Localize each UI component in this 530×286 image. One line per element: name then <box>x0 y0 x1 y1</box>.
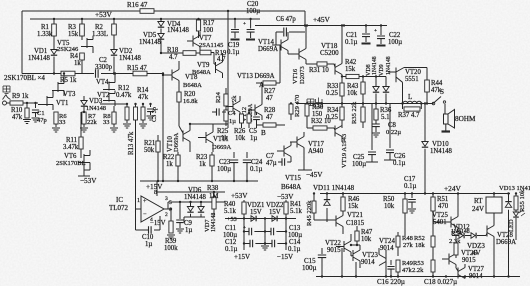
diode VD10 <box>422 142 428 147</box>
diode VD6b <box>200 202 202 206</box>
wire left vertical <box>21 11 23 74</box>
wire row y124 to VAS <box>213 123 228 125</box>
wire op-amp output row <box>164 208 168 210</box>
capacitor C11 100u <box>244 231 249 233</box>
transistor VT24 9014 <box>379 255 386 266</box>
ground under speaker <box>445 124 447 131</box>
wire VT23 emitter to rail <box>355 262 357 277</box>
wire base row VT21 <box>314 219 336 221</box>
wire diode bottoms <box>184 216 205 218</box>
wire R18 row <box>161 52 183 54</box>
transistor VT18 C5200 <box>335 64 342 75</box>
transistor VT4 2SK170 <box>103 82 115 91</box>
resistor R38 1M <box>213 192 215 197</box>
capacitor C9 1u <box>179 202 181 219</box>
resistor R20 <box>177 92 181 102</box>
capacitor C25 100u <box>371 104 373 151</box>
label +15V out <box>243 244 245 251</box>
transistor VT22 9015 <box>344 241 351 252</box>
diode VD13 <box>508 194 510 203</box>
resistor R41 5.1k <box>285 200 287 202</box>
resistor R40 5.1k <box>243 200 245 202</box>
resistor R35 22k <box>361 107 365 122</box>
capacitor C2 3300p <box>96 69 99 77</box>
capacitor C12 0.1u <box>244 243 250 245</box>
resistor R44 47k <box>425 80 430 92</box>
transistor VT3 2SK170 <box>52 82 64 92</box>
speaker 8OHM <box>444 104 446 114</box>
capacitor C16 220u <box>390 260 392 265</box>
diode VD12b <box>465 235 471 237</box>
transistor VT17 A940 <box>297 137 304 148</box>
diode VD8 <box>375 77 377 87</box>
switch S <box>433 97 441 104</box>
wire source row <box>100 103 127 105</box>
resistor R46 15k <box>341 197 345 211</box>
transistor VT23 9014 <box>353 250 360 261</box>
resistor R4 <box>80 53 85 60</box>
wire +53V rail <box>30 18 260 20</box>
diode VD6a <box>190 202 192 206</box>
transistor VT7 2SA1145 <box>193 36 200 47</box>
inductor L <box>403 101 421 103</box>
wire mid vertical x163 <box>162 74 164 182</box>
transistor VT5 2SK246 <box>81 38 93 48</box>
capacitor C7 47u <box>282 158 285 166</box>
transistor VT16 D2073 <box>299 49 306 60</box>
resistor R37 4.7 <box>402 104 404 110</box>
diode VD11 <box>326 194 328 201</box>
wire zener row <box>225 218 296 220</box>
resistor R34 0.25 <box>340 107 344 120</box>
wire input bus <box>22 73 94 75</box>
input terminal <box>3 101 7 105</box>
resistor R31 <box>306 63 317 65</box>
wire bottom rail <box>316 276 520 278</box>
transistor VT21 C1815 <box>336 216 343 227</box>
resistor R24 upper <box>224 94 228 106</box>
zener VDZ1 <box>251 216 255 222</box>
supply -45V tick <box>298 169 312 171</box>
resistor R45 220k <box>313 194 315 202</box>
resistor R54 2.2k <box>454 243 458 255</box>
resistor R49 47k <box>396 260 400 272</box>
transistor VT27 9014 <box>458 268 465 279</box>
capacitor C15 100u <box>321 248 323 254</box>
capacitor C22 electrolytic <box>380 26 382 36</box>
resistor R8 <box>112 112 116 124</box>
resistor R32 10 <box>313 126 327 130</box>
transistor VT8 B648A <box>172 70 179 81</box>
LED <box>513 212 519 216</box>
resistor R28 <box>263 123 276 127</box>
capacitor C19 <box>234 19 236 29</box>
diode VD12a <box>452 235 459 237</box>
resistor R50 10k <box>404 194 406 200</box>
wire feedback vertical <box>135 120 137 230</box>
transistor VT12 D669A <box>233 101 240 112</box>
transistor VT28 D669A <box>487 226 494 237</box>
transistor VT6 2SK170BL <box>78 154 90 164</box>
diode VD5 <box>158 34 164 39</box>
capacitor C26 0.1u <box>389 104 391 149</box>
resistor R14 body <box>134 107 138 120</box>
capacitor C8 0.22u <box>372 124 380 127</box>
diode VD3 <box>81 101 87 106</box>
transistor VT25 5401 <box>451 217 458 228</box>
capacitor C20 electrolytic <box>250 19 252 29</box>
wire VT22 emitter to rail <box>341 248 343 277</box>
capacitor C24 0.1u <box>246 152 248 158</box>
wire LED down <box>515 230 517 240</box>
transistor VT1 2SK170 <box>41 96 53 106</box>
supply -53V tick <box>78 175 90 177</box>
resistor R25 body <box>240 114 244 123</box>
transistor VT26 9015 <box>449 254 456 265</box>
diode VD2 <box>111 50 117 55</box>
wire op-amp pin8 <box>156 181 158 196</box>
wire top feedback line <box>22 10 140 12</box>
resistor R18 <box>183 51 196 56</box>
wire VT cluster node <box>351 244 360 246</box>
ground supply mid <box>264 244 266 246</box>
wire +24V rail <box>320 193 510 195</box>
wire VT20 collector to R44 <box>404 67 427 69</box>
resistor R24 lower body <box>224 110 228 121</box>
resistor R17 <box>198 19 200 20</box>
label input (Chinese) <box>3 86 10 94</box>
transistor VT14 D669A <box>281 40 288 51</box>
resistor R9 <box>7 102 11 104</box>
resistor R6 <box>54 112 58 124</box>
transistor VT2 2SK170 <box>103 93 115 102</box>
transistor VT20 5551 <box>396 68 404 83</box>
wire VAS vertical <box>227 11 229 128</box>
op-amp U1 triangle <box>141 196 164 222</box>
diode VD1 <box>51 50 57 55</box>
wire output bus <box>296 103 433 105</box>
resistor R26 body <box>247 114 251 123</box>
transistor VT9 B648A <box>216 62 223 73</box>
resistor R51 470 <box>431 197 435 211</box>
capacitor C14 0.1u <box>265 243 272 245</box>
label -15V out <box>285 244 287 251</box>
resistor R23 <box>210 155 214 166</box>
wire R42 node to diodes <box>363 76 386 78</box>
capacitor C1 47p <box>35 103 37 108</box>
transistor VT13 D669A <box>255 105 262 116</box>
wire R39 tap <box>164 208 171 210</box>
capacitor C3 <box>150 104 152 107</box>
wire op-amp top rail <box>157 191 225 193</box>
transistor VT15 B648A <box>284 146 291 157</box>
capacitor C5 1u <box>256 112 258 115</box>
resistor R53 2.2k <box>431 260 435 272</box>
capacitor C4 1u <box>212 111 216 113</box>
resistor R55 10k <box>515 194 517 197</box>
diode VD4 <box>160 19 162 21</box>
resistor R10 <box>26 103 28 108</box>
resistor R5 <box>61 71 75 76</box>
resistor R48 27k <box>396 236 400 247</box>
transistor VT11 D669A <box>206 132 213 143</box>
capacitor C23 100u <box>233 152 235 158</box>
capacitor C10 1u <box>136 229 149 231</box>
resistor R15 <box>133 71 147 76</box>
resistor R3 <box>81 19 83 24</box>
resistor R2 <box>113 19 115 24</box>
resistor R13 body <box>141 107 145 120</box>
transistor VT10 D669A <box>183 131 190 142</box>
wire +45V rail <box>255 25 387 27</box>
wire supply columns <box>243 219 245 244</box>
wire VT20 emitter down <box>402 82 404 103</box>
wire speaker net down / VD10 <box>424 104 426 142</box>
relay RT 24V <box>486 197 502 213</box>
wire +15V rail mid <box>140 180 258 182</box>
capacitor C6 47p <box>276 31 283 33</box>
resistor R36 5.1 <box>374 109 378 120</box>
zener VDZ2 <box>272 216 276 222</box>
transistor VT19 A1943 <box>335 126 342 137</box>
resistor R29 470 <box>290 103 292 106</box>
wire VT10-VT11 top join <box>190 123 213 125</box>
resistor R47 10k <box>356 226 358 231</box>
resistor R39 100k <box>170 209 172 221</box>
capacitor C21 <box>365 26 367 34</box>
resistor R43 10k <box>362 77 364 83</box>
resistor R12 body <box>125 107 129 120</box>
capacitor C13 100u <box>265 231 271 233</box>
resistor R52 18k <box>431 236 435 247</box>
resistor R42 <box>342 76 346 78</box>
resistor R16 <box>140 9 154 14</box>
resistor R22 <box>176 155 180 166</box>
resistor R1 <box>53 19 55 24</box>
resistor R33 0.25 <box>340 83 344 96</box>
resistor R19 <box>200 50 211 55</box>
resistor R30 150 <box>306 103 308 106</box>
resistor R27 <box>263 81 276 85</box>
resistor R21 <box>156 141 160 152</box>
resistor R11 <box>80 112 82 137</box>
resistor R7 <box>82 112 86 124</box>
capacitor C17 0.1u <box>411 194 413 199</box>
wire op-amp input <box>136 208 142 210</box>
diode VD9 <box>385 77 387 87</box>
label output (Chinese) <box>307 99 314 106</box>
